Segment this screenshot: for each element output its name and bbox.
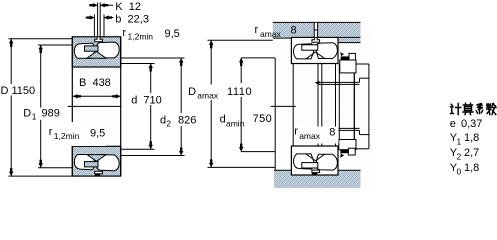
svg-text:r: r bbox=[255, 24, 259, 36]
svg-text:9,5: 9,5 bbox=[90, 128, 105, 140]
dimension D1 989 bbox=[38, 44, 72, 46]
lubrication hole and groove top bbox=[95, 37, 103, 42]
lock nut bottom bbox=[339, 140, 356, 150]
rollers white cavity bottom section bbox=[74, 155, 94, 170]
dimension 1110 line bbox=[241, 57, 275, 59]
bore hatch area left view bbox=[72, 67, 120, 147]
inner ring guide triangle bottom section bbox=[87, 155, 106, 162]
svg-text:8: 8 bbox=[291, 25, 297, 37]
svg-text:1,8: 1,8 bbox=[464, 162, 479, 174]
lock nut top bbox=[340, 60, 356, 73]
table title 计算系数 (drawn as paths) bbox=[451, 103, 497, 114]
adapter sleeve silhouette lines middle bbox=[292, 64, 294, 147]
svg-text:826: 826 bbox=[178, 115, 196, 127]
label r amax 8 bottom bbox=[294, 127, 339, 144]
svg-text:2: 2 bbox=[166, 119, 171, 129]
dimension d2 826 bbox=[121, 57, 185, 59]
svg-text:r: r bbox=[294, 126, 298, 138]
char 计 bbox=[451, 104, 453, 107]
centerline left view bbox=[68, 105, 122, 107]
svg-text:r: r bbox=[49, 126, 53, 138]
char 系 bbox=[477, 104, 484, 110]
dimension K 12 bbox=[97, 3, 99, 37]
right bearing bottom section (white, outline) bbox=[291, 146, 338, 175]
svg-text:amax: amax bbox=[197, 91, 219, 101]
svg-text:D 1150: D 1150 bbox=[1, 85, 36, 97]
dimension d 710 bbox=[121, 63, 155, 65]
svg-text:0: 0 bbox=[457, 167, 462, 177]
svg-text:2,7: 2,7 bbox=[464, 147, 479, 159]
dimension D 1150 bbox=[9, 38, 73, 40]
svg-text:K 12: K 12 bbox=[115, 1, 141, 13]
shaft step line / damin line bbox=[274, 58, 276, 170]
inner ring guide triangle top section bbox=[87, 51, 106, 58]
svg-text:D: D bbox=[188, 86, 196, 98]
dimension b 22,3 bbox=[93, 15, 95, 37]
hatch background right view bbox=[276, 43, 372, 171]
svg-text:e: e bbox=[450, 118, 456, 130]
svg-text:0,37: 0,37 bbox=[461, 118, 482, 130]
dimension B 438 bbox=[76, 76, 114, 89]
svg-text:D: D bbox=[23, 108, 31, 120]
svg-text:1: 1 bbox=[457, 137, 462, 147]
svg-text:750: 750 bbox=[253, 113, 273, 125]
svg-text:1,2min: 1,2min bbox=[54, 131, 80, 141]
svg-text:d: d bbox=[160, 115, 166, 127]
svg-text:r: r bbox=[122, 27, 126, 39]
svg-text:2: 2 bbox=[457, 152, 462, 162]
centerline right view bbox=[271, 105, 296, 107]
svg-text:1: 1 bbox=[32, 112, 37, 122]
svg-text:amin: amin bbox=[226, 119, 245, 129]
svg-text:989: 989 bbox=[42, 108, 60, 120]
svg-text:1110: 1110 bbox=[227, 86, 252, 98]
svg-text:1,8: 1,8 bbox=[464, 132, 479, 144]
top cut section body (outer+inner ring, dithered blue) bbox=[72, 37, 120, 67]
svg-text:d: d bbox=[220, 114, 226, 126]
svg-text:d 710: d 710 bbox=[131, 94, 162, 106]
right bearing top section (white, outline) bbox=[291, 37, 338, 63]
svg-text:9,5: 9,5 bbox=[165, 28, 180, 40]
svg-text:amax: amax bbox=[260, 29, 282, 39]
cage bar top section bbox=[85, 46, 99, 51]
housing band top (blue) bbox=[273, 22, 361, 42]
cage bar bottom section bbox=[85, 162, 99, 167]
svg-text:8: 8 bbox=[329, 126, 335, 138]
label r 1,2min 9,5 lower bbox=[44, 122, 106, 146]
shaft band bottom (blue) bbox=[274, 170, 361, 188]
lubrication hole and groove bottom bbox=[95, 171, 103, 174]
bearing side silhouette lines left view bbox=[71, 37, 73, 176]
svg-text:1,2min: 1,2min bbox=[128, 32, 154, 42]
svg-text:amax: amax bbox=[299, 131, 321, 141]
svg-text:B 438: B 438 bbox=[79, 77, 111, 89]
rollers white cavity top section bbox=[74, 43, 94, 58]
char 算 bbox=[464, 103, 473, 105]
char 数 bbox=[487, 104, 491, 108]
bottom cut section body bbox=[72, 146, 120, 176]
dimension Damax bbox=[208, 39, 273, 41]
svg-text:b 22,3: b 22,3 bbox=[115, 13, 149, 25]
